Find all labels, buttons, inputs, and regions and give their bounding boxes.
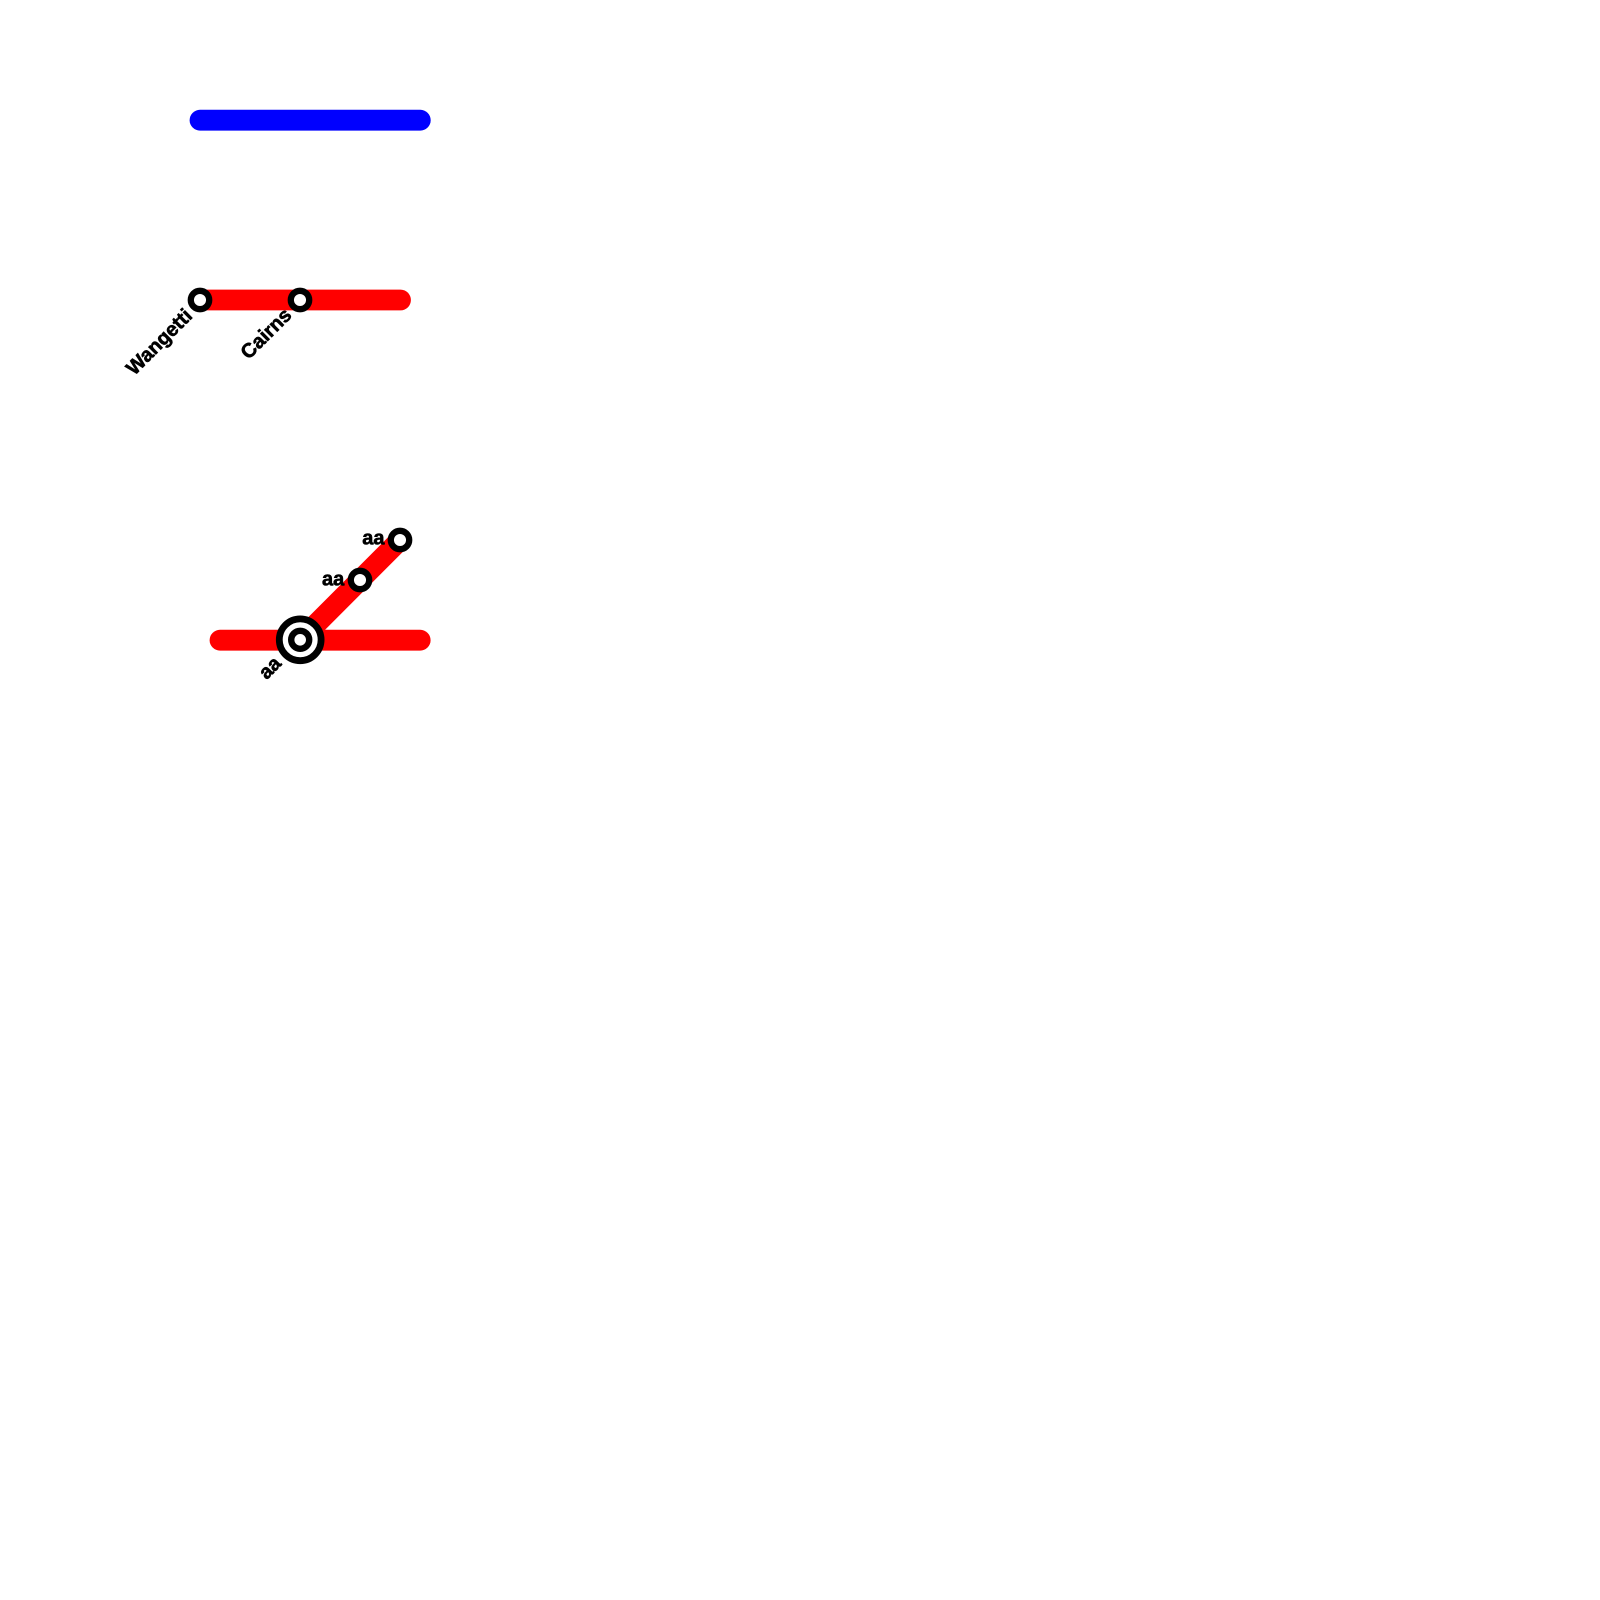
station aa (top of branch) xyxy=(391,531,409,549)
station Wangetti xyxy=(191,291,209,309)
station aa (middle of branch) xyxy=(351,571,369,589)
red line lower horizontal xyxy=(220,630,420,651)
svg-text:aa: aa xyxy=(322,568,345,590)
red branch diagonal xyxy=(300,540,400,640)
svg-text:Cairns: Cairns xyxy=(237,304,297,364)
svg-text:aa: aa xyxy=(255,652,287,684)
blue line (top) xyxy=(200,110,420,131)
interchange aa (inner ring) xyxy=(291,631,309,649)
svg-text:Wangetti: Wangetti xyxy=(122,305,197,380)
red line Wangetti-Cairns xyxy=(200,290,401,311)
svg-text:aa: aa xyxy=(362,527,385,549)
station Cairns xyxy=(291,291,309,309)
interchange aa (outer ring) xyxy=(279,619,321,661)
